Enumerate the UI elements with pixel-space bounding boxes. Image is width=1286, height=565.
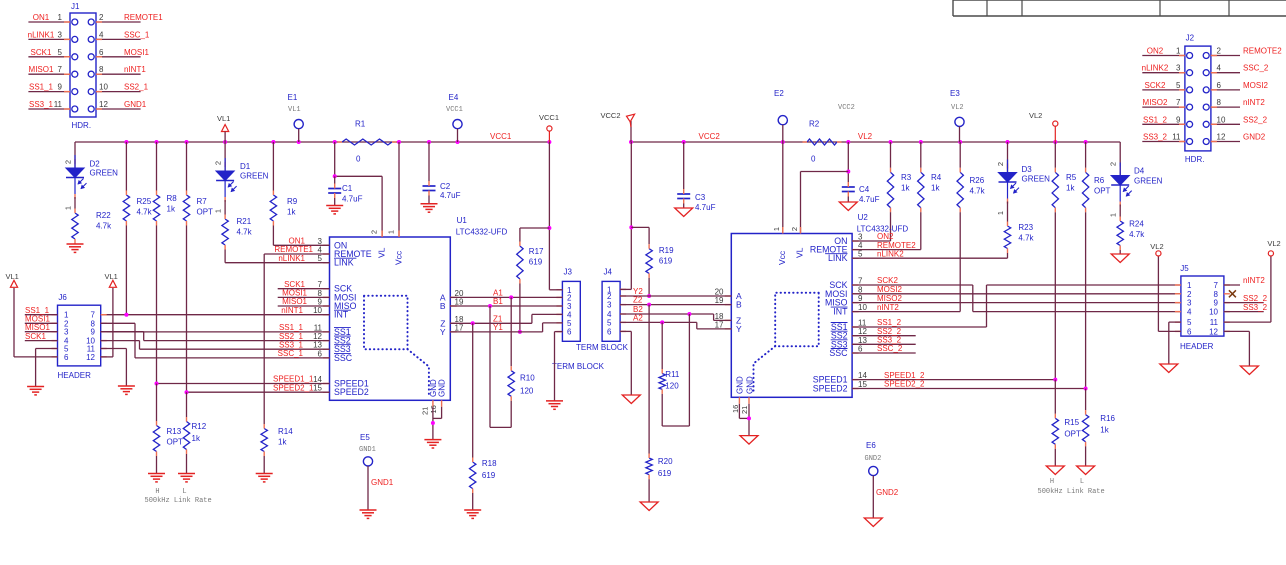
svg-text:Z2: Z2 — [633, 296, 643, 305]
svg-text:2: 2 — [1187, 290, 1192, 299]
svg-text:HEADER: HEADER — [1180, 342, 1214, 351]
svg-text:SS1_2: SS1_2 — [877, 318, 902, 327]
svg-text:R6: R6 — [1094, 176, 1105, 185]
svg-text:MOSI2: MOSI2 — [1243, 81, 1268, 90]
svg-text:1k: 1k — [167, 205, 176, 214]
svg-text:SCK2: SCK2 — [877, 276, 898, 285]
svg-text:12: 12 — [99, 100, 108, 109]
svg-text:VL2: VL2 — [1150, 242, 1163, 251]
resistor R12 — [186, 392, 188, 417]
ground under J6.11 — [118, 385, 135, 387]
svg-text:3: 3 — [318, 237, 323, 246]
svg-text:J5: J5 — [1180, 264, 1189, 273]
wire VCC2 rail — [631, 141, 1120, 143]
wire VCC1 to J3.1 — [548, 142, 550, 290]
power VCC1 symbol — [547, 140, 551, 144]
svg-text:INT: INT — [833, 307, 848, 317]
svg-text:R17: R17 — [529, 247, 544, 256]
svg-text:8: 8 — [1217, 98, 1222, 107]
svg-text:R1: R1 — [355, 120, 366, 129]
svg-text:nLINK2: nLINK2 — [877, 249, 904, 258]
svg-text:10: 10 — [99, 83, 108, 92]
wire J6.5 to ground — [36, 348, 58, 350]
power VL1 mid arrow — [109, 280, 116, 287]
svg-text:R14: R14 — [278, 427, 293, 436]
net SCK2 wire — [852, 284, 973, 286]
svg-text:REMOTE2: REMOTE2 — [1243, 47, 1282, 56]
resistor R16 — [1085, 389, 1087, 411]
svg-text:J3: J3 — [564, 268, 573, 277]
resistor R9 — [272, 142, 274, 191]
svg-text:J4: J4 — [604, 268, 613, 277]
svg-text:nINT1: nINT1 — [281, 306, 303, 315]
svg-text:1k: 1k — [931, 184, 940, 193]
svg-text:1: 1 — [58, 13, 63, 22]
svg-text:SPEED2: SPEED2 — [813, 384, 848, 394]
svg-text:GREEN: GREEN — [240, 172, 269, 181]
svg-text:9: 9 — [1214, 299, 1219, 308]
op-amp U2 body — [731, 234, 852, 398]
svg-text:11: 11 — [314, 323, 323, 332]
svg-text:LINK: LINK — [334, 258, 354, 268]
svg-text:11: 11 — [1172, 133, 1181, 142]
wire J5.11 to VL2 — [1224, 321, 1271, 323]
net ON1 — [273, 244, 329, 246]
svg-text:0: 0 — [811, 155, 816, 164]
resistor R24 — [1119, 205, 1121, 217]
svg-text:6: 6 — [567, 328, 572, 337]
net SPEED2_1 wire — [187, 391, 330, 393]
svg-text:SS3_2: SS3_2 — [1143, 133, 1168, 142]
svg-text:SCK1: SCK1 — [31, 48, 52, 57]
wire J5.5 to ground — [1169, 321, 1181, 323]
svg-text:nINT2: nINT2 — [877, 303, 899, 312]
svg-text:13: 13 — [858, 336, 867, 345]
svg-text:1: 1 — [1187, 281, 1192, 290]
svg-text:Y: Y — [440, 327, 446, 337]
svg-text:19: 19 — [455, 298, 464, 307]
svg-text:GND1: GND1 — [124, 100, 147, 109]
wire C2 feed — [428, 142, 430, 181]
terminal block J4 — [602, 281, 620, 341]
svg-text:B1: B1 — [493, 297, 503, 306]
svg-text:4.7k: 4.7k — [137, 208, 153, 217]
svg-text:1k: 1k — [278, 438, 287, 447]
svg-text:GND2: GND2 — [865, 455, 882, 463]
svg-text:5: 5 — [858, 250, 863, 259]
svg-text:VL1: VL1 — [6, 272, 19, 281]
net SCK1 stub — [278, 288, 330, 290]
svg-text:R13: R13 — [167, 427, 182, 436]
svg-text:GND2: GND2 — [876, 488, 899, 497]
svg-text:C3: C3 — [695, 193, 706, 202]
svg-text:1: 1 — [214, 209, 223, 213]
ground under U2 — [740, 436, 758, 445]
svg-text:H: H — [1050, 478, 1054, 486]
svg-text:GREEN: GREEN — [1022, 175, 1051, 184]
svg-text:R15: R15 — [1064, 418, 1079, 427]
net Y1 wire — [450, 331, 542, 333]
svg-text:VCC2: VCC2 — [838, 104, 855, 112]
net VL1 rail dots — [124, 140, 128, 144]
svg-text:11: 11 — [54, 100, 63, 109]
ground under E5 — [360, 509, 377, 511]
svg-text:SSC: SSC — [829, 348, 848, 358]
svg-text:9: 9 — [1176, 115, 1181, 124]
resistor R20 pulldown Z2 — [648, 305, 650, 454]
U1 top pins VL Vcc — [381, 231, 383, 238]
title block border — [952, 0, 954, 16]
svg-text:REMOTE1: REMOTE1 — [124, 13, 163, 22]
ground under J5.12 — [1240, 366, 1258, 375]
svg-text:0: 0 — [356, 155, 361, 164]
net SPEED2_2 wire — [852, 388, 1086, 390]
svg-text:R18: R18 — [482, 459, 497, 468]
net MOSI1 stub — [278, 296, 330, 298]
svg-text:11: 11 — [1210, 318, 1219, 327]
svg-text:ON2: ON2 — [1147, 47, 1164, 56]
svg-text:J2: J2 — [1186, 34, 1195, 43]
ground under R24 — [1111, 254, 1129, 263]
connector J6 — [58, 305, 101, 366]
net Z1 wire — [450, 322, 532, 324]
ground under J6.5 — [27, 386, 44, 388]
net A1 wire — [450, 296, 562, 298]
svg-text:1: 1 — [387, 230, 396, 234]
svg-text:6: 6 — [64, 353, 69, 362]
svg-text:1k: 1k — [1100, 426, 1109, 435]
svg-text:OPT: OPT — [197, 208, 214, 217]
resistor R2 — [807, 139, 837, 145]
svg-text:R7: R7 — [197, 197, 208, 206]
net A2 wire — [620, 321, 697, 323]
svg-text:E5: E5 — [360, 433, 370, 442]
svg-text:VL2: VL2 — [858, 132, 873, 141]
net nLINK2 — [852, 257, 1007, 259]
wire R21 to nLINK1 — [224, 250, 226, 263]
svg-text:7: 7 — [858, 277, 863, 286]
resistor R17 — [519, 228, 521, 242]
svg-text:7: 7 — [1214, 281, 1219, 290]
net B1 wire — [450, 305, 562, 307]
testpoint E1 — [294, 120, 303, 129]
testpoint E4 — [453, 120, 462, 129]
svg-text:SS3_1: SS3_1 — [29, 100, 54, 109]
svg-text:J6: J6 — [58, 293, 67, 302]
svg-text:R21: R21 — [237, 217, 252, 226]
svg-text:R16: R16 — [1100, 414, 1115, 423]
svg-text:SS1_1: SS1_1 — [29, 83, 54, 92]
svg-text:16: 16 — [731, 405, 740, 413]
net nLINK1 — [225, 262, 329, 264]
U2 GND wires — [748, 404, 750, 436]
net SS2_2 stub — [852, 335, 916, 337]
svg-text:C4: C4 — [859, 185, 870, 194]
svg-text:GND: GND — [736, 376, 745, 394]
svg-text:4.7k: 4.7k — [1129, 230, 1145, 239]
svg-text:GND1: GND1 — [371, 478, 394, 487]
svg-text:VL2: VL2 — [1029, 111, 1042, 120]
svg-text:4.7k: 4.7k — [1018, 234, 1034, 243]
ground under R16 — [1077, 466, 1095, 475]
svg-text:120: 120 — [520, 387, 534, 396]
svg-text:GREEN: GREEN — [90, 169, 119, 178]
svg-text:R25: R25 — [137, 197, 152, 206]
net nINT2 wire — [852, 311, 960, 313]
svg-text:1k: 1k — [1066, 184, 1075, 193]
U2 bottom GND pins — [738, 397, 740, 404]
wire C1/VL branch — [334, 142, 336, 176]
wire J6.12 to VL1 — [101, 356, 113, 358]
connector J5 — [1181, 276, 1224, 336]
svg-text:D2: D2 — [90, 160, 101, 169]
svg-text:1: 1 — [772, 227, 781, 231]
svg-text:SS3_2: SS3_2 — [1243, 303, 1268, 312]
svg-text:7: 7 — [318, 280, 323, 289]
resistor R21 — [224, 200, 226, 215]
svg-text:6: 6 — [607, 327, 612, 336]
svg-text:R26: R26 — [970, 176, 985, 185]
svg-text:GND: GND — [438, 379, 447, 397]
svg-text:ON1: ON1 — [289, 237, 306, 246]
U1 right pin stubs — [450, 296, 457, 298]
svg-text:GND2: GND2 — [1243, 133, 1266, 142]
svg-text:GND1: GND1 — [359, 446, 376, 454]
svg-text:9: 9 — [91, 328, 96, 337]
svg-text:VCC1: VCC1 — [539, 113, 559, 122]
svg-text:C2: C2 — [440, 182, 451, 191]
ground under C2 — [421, 203, 438, 205]
net REMOTE2 — [852, 249, 921, 251]
svg-text:SS3_1: SS3_1 — [279, 340, 304, 349]
net SS3_2 stub — [852, 343, 916, 345]
svg-text:R5: R5 — [1066, 173, 1077, 182]
svg-text:8: 8 — [1214, 290, 1219, 299]
rail dots right — [682, 140, 686, 144]
U1 bottom GND pins — [432, 400, 434, 407]
svg-text:E4: E4 — [449, 93, 459, 102]
svg-text:19: 19 — [715, 296, 724, 305]
svg-text:500kHz Link Rate: 500kHz Link Rate — [1038, 488, 1105, 496]
svg-text:4.7uF: 4.7uF — [695, 203, 716, 212]
svg-text:L: L — [1080, 478, 1084, 486]
svg-text:3: 3 — [64, 328, 69, 337]
svg-text:3: 3 — [1176, 64, 1181, 73]
net SS1_1 wire — [101, 331, 330, 333]
net SS1_2 wire — [852, 326, 986, 328]
ground under C1 — [326, 205, 343, 207]
wire Vcc feed U1 — [398, 142, 400, 237]
svg-text:1k: 1k — [192, 434, 201, 443]
svg-text:VL2: VL2 — [951, 104, 964, 112]
wire J6.10 jog to SS3_1 — [101, 340, 140, 342]
capacitor C4 and VL branch — [847, 142, 849, 182]
ground under R22 — [67, 243, 84, 245]
testpoint E6 — [869, 466, 878, 475]
svg-text:9: 9 — [858, 294, 863, 303]
ground under C3 — [675, 208, 693, 217]
svg-text:H: H — [155, 488, 159, 496]
svg-text:12: 12 — [1217, 133, 1226, 142]
svg-text:3: 3 — [1187, 299, 1192, 308]
svg-text:1: 1 — [1109, 213, 1118, 217]
net SS2_1 wire — [144, 340, 330, 342]
ground under C4 — [839, 202, 857, 211]
svg-text:6: 6 — [318, 349, 323, 358]
resistor R14 on REMOTE1 — [263, 254, 265, 424]
svg-text:619: 619 — [659, 257, 673, 266]
svg-text:SPEED2_1: SPEED2_1 — [273, 383, 314, 392]
resistor R6 — [1085, 142, 1087, 168]
svg-text:1k: 1k — [901, 184, 910, 193]
svg-text:4.7k: 4.7k — [96, 222, 112, 231]
ground under R20 — [640, 502, 658, 511]
net MISO2 wire — [852, 302, 1181, 304]
net SSC_1 wire — [135, 357, 330, 359]
ground under U1 — [424, 439, 441, 441]
svg-text:E3: E3 — [950, 89, 960, 98]
ground under J5.5 — [1160, 364, 1178, 373]
svg-text:MISO2: MISO2 — [877, 294, 902, 303]
resistor R26 — [959, 142, 961, 168]
resistor R8 — [156, 142, 158, 191]
svg-text:Vcc: Vcc — [777, 250, 787, 265]
svg-text:SCK2: SCK2 — [1145, 81, 1166, 90]
LED D3 — [1007, 142, 1009, 173]
svg-text:2: 2 — [99, 13, 104, 22]
svg-text:VCC1: VCC1 — [446, 106, 463, 114]
svg-text:OPT: OPT — [1094, 187, 1111, 196]
svg-text:8: 8 — [858, 285, 863, 294]
svg-text:MISO1: MISO1 — [25, 323, 50, 332]
net SS2_2 stub J5.9 — [1224, 302, 1264, 304]
svg-text:TERM BLOCK: TERM BLOCK — [552, 362, 605, 371]
svg-text:2: 2 — [1217, 47, 1222, 56]
ground under J3.6 — [546, 400, 563, 402]
svg-text:E2: E2 — [774, 89, 784, 98]
svg-text:10: 10 — [313, 306, 322, 315]
svg-text:4: 4 — [1217, 64, 1222, 73]
net REMOTE1 — [264, 253, 329, 255]
svg-text:4: 4 — [1187, 308, 1192, 317]
svg-text:A2: A2 — [633, 313, 643, 322]
net SPEED1_2 wire — [852, 379, 1055, 381]
svg-text:SS2_2: SS2_2 — [1243, 294, 1268, 303]
U2 exposed pad outline — [775, 293, 819, 347]
power VL1 left arrow — [10, 280, 17, 287]
LED D1 — [224, 142, 226, 171]
svg-text:SSC_2: SSC_2 — [877, 344, 903, 353]
resistor R18 pulldown Z1 — [472, 323, 474, 457]
svg-text:J1: J1 — [71, 2, 80, 11]
svg-text:6: 6 — [1217, 81, 1222, 90]
op-amp U1 body — [330, 237, 451, 400]
svg-text:GREEN: GREEN — [1134, 177, 1163, 186]
ground under R12 — [178, 473, 195, 475]
svg-text:D3: D3 — [1022, 165, 1033, 174]
wire R17 branch — [520, 227, 550, 229]
power VL2 left circle — [1156, 251, 1161, 256]
capacitor C1 — [328, 188, 341, 190]
svg-text:U1: U1 — [457, 216, 468, 225]
svg-text:120: 120 — [665, 382, 679, 391]
wire J4.6 to ground — [620, 330, 631, 332]
svg-text:2: 2 — [996, 162, 1005, 166]
svg-text:17: 17 — [455, 323, 464, 332]
wire SCK2 jog to J5.4 — [973, 311, 1181, 313]
wire J6.8 jog to SSC_1 — [101, 322, 135, 324]
ground under R14 — [256, 473, 273, 475]
svg-text:9: 9 — [58, 83, 63, 92]
resistor R15 — [1054, 380, 1056, 414]
power VL2 right circle — [1268, 251, 1273, 256]
svg-text:SS1_1: SS1_1 — [279, 323, 304, 332]
svg-text:15: 15 — [858, 380, 867, 389]
wire J3.6 to ground — [555, 331, 563, 333]
svg-text:5: 5 — [318, 254, 323, 263]
svg-text:nINT2: nINT2 — [1243, 276, 1265, 285]
svg-text:8: 8 — [99, 65, 104, 74]
J6 left net stubs — [25, 314, 58, 316]
svg-text:SPEED2: SPEED2 — [334, 387, 369, 397]
svg-text:R22: R22 — [96, 211, 111, 220]
svg-text:E6: E6 — [866, 441, 876, 450]
U1 left pin stubs — [323, 244, 330, 246]
svg-text:4.7uF: 4.7uF — [440, 191, 461, 200]
svg-text:LTC4332-UFD: LTC4332-UFD — [456, 228, 508, 237]
svg-text:VCC1: VCC1 — [490, 132, 512, 141]
svg-text:17: 17 — [715, 320, 724, 329]
wire J6.11 to ground — [101, 348, 127, 350]
net SPEED1_1 wire — [157, 383, 330, 385]
svg-text:Y: Y — [736, 324, 742, 334]
net Z2 wire — [620, 304, 731, 306]
svg-text:619: 619 — [482, 471, 496, 480]
resistor R19 — [648, 227, 650, 244]
svg-text:SPEED1_1: SPEED1_1 — [273, 375, 314, 384]
resistor R13 — [156, 384, 158, 422]
U1 GND wires — [432, 407, 434, 440]
svg-text:12: 12 — [86, 353, 95, 362]
resistor R5 — [1054, 142, 1056, 168]
svg-text:MOSI1: MOSI1 — [124, 48, 149, 57]
wire SS1_2 to J5.1 — [987, 284, 1181, 286]
svg-text:619: 619 — [658, 469, 672, 478]
svg-text:SCK1: SCK1 — [25, 332, 46, 341]
svg-text:D4: D4 — [1134, 167, 1145, 176]
svg-text:2: 2 — [64, 160, 73, 164]
svg-text:R19: R19 — [659, 246, 674, 255]
svg-text:VL1: VL1 — [217, 114, 230, 123]
svg-text:R4: R4 — [931, 173, 942, 182]
svg-text:B: B — [440, 301, 446, 311]
svg-text:10: 10 — [1217, 115, 1226, 124]
svg-text:4.7k: 4.7k — [237, 228, 253, 237]
svg-text:SS2_1: SS2_1 — [124, 83, 149, 92]
svg-text:14: 14 — [858, 371, 867, 380]
svg-text:LINK: LINK — [828, 253, 848, 263]
svg-text:R2: R2 — [809, 120, 820, 129]
svg-text:15: 15 — [313, 384, 322, 393]
svg-text:R9: R9 — [287, 197, 298, 206]
svg-text:OPT: OPT — [1064, 430, 1081, 439]
svg-text:INT: INT — [334, 310, 349, 320]
wire J6.6 to VL1 — [14, 356, 58, 358]
connector J2 — [1185, 46, 1211, 151]
svg-text:VL: VL — [377, 247, 387, 258]
svg-text:2: 2 — [214, 161, 223, 165]
svg-text:E1: E1 — [288, 93, 298, 102]
